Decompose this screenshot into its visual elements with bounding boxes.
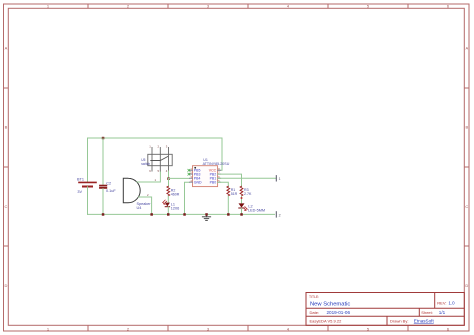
junction node PB4/R2 [167, 177, 170, 180]
svg-text:GND: GND [194, 181, 202, 185]
svg-text:Sheet:: Sheet: [421, 310, 433, 315]
title block [306, 293, 464, 326]
node net flag 1 [276, 176, 280, 182]
svg-text:1.0: 1.0 [449, 300, 456, 305]
svg-text:TITLE:: TITLE: [309, 295, 319, 299]
LED L1 [163, 200, 180, 210]
svg-text:2019-01-06: 2019-01-06 [327, 310, 351, 315]
LED L2 [239, 203, 266, 212]
svg-text:VCC: VCC [209, 169, 217, 173]
svg-text:B: B [465, 125, 468, 130]
svg-text:2.7K: 2.7K [244, 192, 252, 196]
switch U5 [141, 144, 172, 172]
wire battery negative [87, 187, 89, 215]
svg-text:1: 1 [279, 177, 281, 181]
junction ground / bottom rail [205, 213, 208, 216]
wire U1 PB1 to net 1 [218, 177, 276, 179]
svg-text:A: A [465, 45, 468, 50]
svg-text:1206: 1206 [171, 206, 179, 210]
svg-text:D: D [465, 283, 468, 288]
wire U1 GND to bottom rail [185, 182, 190, 214]
svg-text:C: C [5, 204, 8, 209]
wire R3 to L2 [241, 196, 243, 203]
svg-text:51R: 51R [231, 192, 238, 196]
resistor R2 [167, 186, 180, 196]
junction GND wire / bottom rail [183, 213, 186, 216]
speaker U4 [123, 178, 156, 210]
wire ground bottom rail [88, 213, 275, 215]
svg-text:New Schematic: New Schematic [310, 301, 350, 307]
svg-text:EasyEDA V5.9.22: EasyEDA V5.9.22 [310, 318, 343, 323]
junction C2 / bottom rail [102, 213, 105, 216]
svg-text:D: D [5, 283, 8, 288]
junction L2 / bottom rail [240, 213, 243, 216]
wire VCC drop to U1 [218, 138, 222, 170]
svg-text:REV:: REV: [437, 300, 446, 305]
wire battery positive [87, 138, 89, 182]
wire R1 to bottom rail [227, 196, 229, 214]
wire L2 to bottom rail [241, 208, 243, 214]
svg-text:460R: 460R [171, 192, 180, 196]
wire node down to R2 [168, 179, 170, 187]
svg-text:A: A [5, 45, 8, 50]
svg-text:0.1uF: 0.1uF [106, 189, 116, 193]
svg-text:3V: 3V [77, 190, 82, 194]
svg-text:2: 2 [279, 214, 281, 218]
svg-text:C: C [465, 204, 468, 209]
svg-text:LED-5MM: LED-5MM [248, 209, 265, 213]
junction L1 / bottom rail [167, 213, 170, 216]
wire speaker pin2 to ground rail [139, 197, 152, 214]
wire C2 bottom [102, 189, 104, 215]
wire C2 top [102, 138, 104, 185]
resistor R1 [227, 186, 238, 196]
wire switch pin4 down to node [168, 171, 170, 179]
svg-text:EtnasSoft: EtnasSoft [414, 318, 435, 323]
svg-text:B: B [5, 125, 8, 130]
svg-text:BT1: BT1 [77, 177, 84, 181]
wire node to U1 PB4 [169, 177, 190, 179]
svg-text:1/1: 1/1 [439, 310, 446, 315]
capacitor C2 [100, 182, 116, 193]
svg-text:C2: C2 [106, 182, 111, 186]
wire U1 PB2 to R3 [218, 174, 242, 186]
svg-text:Date:: Date: [310, 310, 320, 315]
junction speaker / bottom rail [150, 213, 153, 216]
op-amp U1 (IC ATTINY85) [188, 158, 230, 187]
node net flag 2 [276, 212, 280, 218]
svg-text:U4: U4 [137, 206, 142, 210]
wire VCC top rail [88, 137, 223, 139]
junction top rail / C2 [102, 137, 105, 140]
svg-text:ATTINY85-20SU: ATTINY85-20SU [203, 162, 230, 166]
wire R2 to L1 [167, 196, 169, 203]
resistor R3 [240, 186, 252, 196]
battery BT1 [77, 177, 96, 194]
svg-text:switch: switch [141, 162, 150, 166]
wire L1 to bottom rail [167, 207, 169, 214]
wire U1 PB0 to R1 [218, 182, 229, 186]
wire speaker pin1 to switch [137, 171, 160, 182]
svg-text:Drawn By:: Drawn By: [390, 318, 408, 323]
junction R1 / bottom rail [227, 213, 230, 216]
svg-text:PB0: PB0 [210, 181, 217, 185]
node R3/L2 pin ends [241, 197, 243, 199]
ground [202, 214, 210, 220]
